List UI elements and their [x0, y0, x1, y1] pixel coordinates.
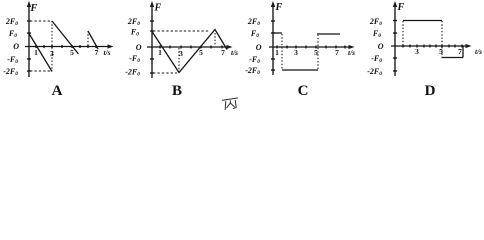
svg-text:1: 1 — [158, 48, 162, 57]
svg-text:F: F — [30, 3, 38, 14]
svg-text:3: 3 — [50, 49, 54, 58]
svg-text:F: F — [275, 2, 283, 13]
svg-text:D: D — [425, 83, 436, 99]
svg-text:3: 3 — [415, 47, 419, 56]
svg-text:O: O — [378, 42, 384, 51]
svg-text:F: F — [397, 2, 405, 13]
svg-text:t/s: t/s — [231, 48, 238, 57]
svg-text:B: B — [172, 83, 182, 99]
svg-text:C: C — [298, 83, 309, 99]
svg-text:7: 7 — [335, 48, 339, 57]
svg-text:3: 3 — [294, 48, 298, 57]
svg-text:7: 7 — [221, 48, 225, 57]
svg-text:5: 5 — [70, 48, 74, 57]
svg-text:A: A — [52, 83, 63, 99]
svg-text:O: O — [256, 43, 262, 52]
svg-text:O: O — [13, 42, 19, 51]
svg-text:3: 3 — [179, 49, 183, 58]
svg-text:t/s: t/s — [104, 48, 111, 57]
svg-text:1: 1 — [34, 48, 38, 57]
svg-text:O: O — [136, 43, 142, 52]
svg-text:5: 5 — [199, 48, 203, 57]
svg-text:t/s: t/s — [475, 47, 482, 56]
svg-text:7: 7 — [95, 48, 99, 57]
svg-text:t/s: t/s — [348, 48, 355, 57]
svg-text:F: F — [154, 3, 162, 14]
svg-text:7: 7 — [458, 47, 462, 56]
svg-text:1: 1 — [275, 48, 279, 57]
